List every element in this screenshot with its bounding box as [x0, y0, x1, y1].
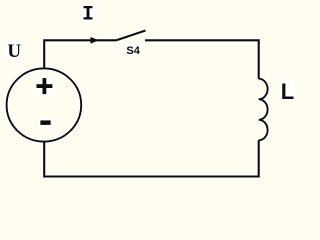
- inductor L: [259, 79, 268, 141]
- label halo backgrounds: [7, 31, 268, 177]
- voltage source U: [7, 68, 82, 141]
- svg-text:I: I: [82, 3, 94, 26]
- switch S4: [116, 31, 146, 41]
- current direction arrow for I: [91, 37, 99, 44]
- voltage source minus polarity mark: [40, 120, 50, 125]
- wire: switch S4 right contact to top-right corner down to inductor L top: [145, 40, 259, 78]
- wire: inductor L bottom to bottom-right corner, bottom rail, up to source bottom: [44, 140, 259, 176]
- voltage source plus polarity mark: [37, 78, 53, 94]
- wire: source top up and right to switch S4 left contact: [44, 40, 116, 68]
- svg-text:U: U: [7, 41, 21, 62]
- svg-text:L: L: [281, 79, 294, 104]
- svg-text:S4: S4: [126, 45, 140, 57]
